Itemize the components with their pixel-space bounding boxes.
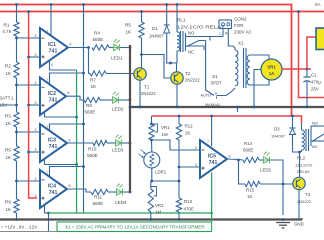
wire IC3 pin4	[45, 159, 77, 165]
svg-text:1K: 1K	[91, 84, 98, 89]
svg-text:1M: 1M	[155, 210, 161, 215]
label LED5	[260, 168, 272, 173]
wire -12V green bus	[76, 70, 78, 213]
wire IC4 pin7	[50, 167, 84, 177]
diode D3	[290, 128, 296, 135]
pin 6 IC1	[70, 43, 72, 47]
wire IC5 pin7	[211, 116, 213, 146]
label LED3	[112, 148, 124, 153]
node ref IC1	[27, 56, 30, 59]
pin L CON2	[220, 32, 222, 36]
wire R13 bottom	[178, 212, 180, 220]
svg-text:IC5: IC5	[208, 154, 216, 160]
node tap IC4	[15, 180, 18, 183]
wire tap to IC4 pin2	[17, 180, 41, 182]
node bar bus junction	[129, 106, 132, 109]
wire VR1 top	[151, 116, 153, 124]
wire second supply rail	[0, 11, 324, 13]
svg-text:R1: R1	[4, 23, 10, 28]
pin 7 IC2	[47, 78, 49, 82]
node IC1 pin7 rail	[50, 3, 53, 6]
transformer X1 secondary	[247, 55, 250, 85]
pin 2 IC1	[35, 34, 37, 38]
wire secondary top to SR1	[250, 55, 269, 60]
svg-text:2K: 2K	[185, 131, 190, 136]
svg-text:T2: T2	[185, 71, 191, 76]
wire to T3 collector	[299, 152, 301, 178]
svg-text:230V AC: 230V AC	[234, 30, 253, 35]
svg-text:CON2: CON2	[234, 17, 247, 22]
svg-text:470E: 470E	[184, 207, 194, 212]
svg-text:NC: NC	[188, 50, 194, 55]
wire bottom ground bar	[0, 218, 302, 220]
op-amp IC2	[40, 78, 66, 116]
wire tap to IC1 pin2	[17, 37, 41, 39]
node IC4 pin7 bus	[82, 165, 85, 168]
relay contact NO RL1	[186, 36, 224, 38]
pin 6 IC2	[68, 91, 70, 95]
wire RL1 coil bottom	[176, 51, 178, 63]
svg-text:2: 2	[195, 146, 197, 150]
wire RL1 coil top	[176, 5, 178, 33]
node LDR tap	[150, 139, 153, 142]
pin 2 IC4	[35, 177, 37, 181]
wire T1 collector to T2 base	[142, 55, 172, 79]
svg-text:2: 2	[35, 177, 37, 181]
node tap BATT	[15, 104, 18, 107]
svg-text:560E: 560E	[93, 201, 104, 206]
label R8	[85, 103, 96, 114]
svg-text:6: 6	[69, 139, 71, 143]
svg-text:2N2222: 2N2222	[185, 78, 200, 83]
svg-text:12V,1C/O RELAY: 12V,1C/O RELAY	[177, 25, 225, 30]
label BATT.1	[0, 96, 14, 108]
svg-text:6: 6	[70, 43, 72, 47]
pin 7 IC4	[47, 171, 49, 175]
node IC4 pin4	[47, 212, 50, 215]
capacitor C1	[303, 77, 310, 82]
note box	[57, 222, 212, 232]
wire down to edge	[48, 213, 50, 232]
svg-text:LED3: LED3	[112, 148, 124, 153]
wire IC1 pin4	[50, 61, 77, 71]
LED LED2	[113, 92, 119, 104]
node VR1 wiper	[150, 123, 153, 126]
svg-text:LED5: LED5	[260, 168, 272, 173]
node T1 emitter bus	[139, 106, 142, 109]
wire LED4 to bar	[123, 191, 130, 193]
wire SR1 left to bus	[254, 70, 261, 108]
relay contact NC RL2	[311, 141, 324, 149]
svg-text:3: 3	[35, 101, 37, 105]
wire +12V rail (top)	[0, 5, 292, 117]
label R3	[5, 114, 12, 126]
svg-text:3: 3	[195, 163, 197, 167]
relay pole bar RL1	[185, 33, 187, 51]
wire D3 bottom	[293, 135, 300, 153]
svg-text:1A: 1A	[269, 71, 275, 76]
svg-text:VR2: VR2	[155, 203, 164, 208]
label C1	[311, 73, 321, 92]
wire secondary bottom to SR1	[250, 80, 269, 86]
label 4 IC1	[51, 63, 53, 67]
label R9	[5, 200, 12, 212]
node LED2 bar	[129, 98, 132, 101]
svg-text:1K: 1K	[247, 194, 252, 199]
wire tap to IC3 pin2	[17, 131, 41, 133]
node LED1 bar	[129, 46, 132, 49]
wire IC3 output	[67, 142, 93, 144]
node IC5 pin7 tap	[210, 115, 213, 118]
svg-text:LED2: LED2	[112, 107, 124, 112]
node IC2 pin4 green	[75, 116, 78, 119]
wire R11 to LED4	[108, 191, 117, 193]
wire +12V bus vertical	[83, 5, 85, 214]
relay coil RL1	[177, 32, 180, 51]
wire S1 to X1 primary	[217, 88, 236, 96]
node base cross	[282, 183, 285, 186]
svg-text:12V: 12V	[0, 103, 8, 108]
svg-text:R15: R15	[246, 188, 255, 193]
pin 3 IC5	[195, 163, 197, 167]
label X1 note	[65, 225, 205, 230]
transistor T3	[293, 177, 305, 189]
relay pole bar RL2	[310, 126, 312, 146]
pin 6 IC5	[229, 155, 231, 159]
wire R9 to ground bar	[16, 213, 18, 220]
wire SR1 output	[282, 68, 311, 70]
wire IC1 pin7 to rail	[50, 5, 52, 37]
node R13 top	[178, 180, 181, 183]
node RL1 rail	[176, 3, 179, 6]
svg-text:3: 3	[35, 148, 37, 152]
wire IC5 pin4 green	[211, 173, 213, 223]
label GND	[294, 222, 304, 227]
wire LED5 down	[270, 160, 283, 215]
svg-text:470µ: 470µ	[311, 80, 321, 85]
node SR1 C1	[306, 68, 309, 71]
node R5 rail2	[140, 10, 143, 13]
op-amp IC3	[40, 124, 67, 162]
pin N CON2	[225, 32, 228, 36]
label NO RL1	[188, 31, 195, 36]
svg-text:1K: 1K	[126, 30, 133, 35]
label R1	[2, 23, 12, 34]
relay coil RL2	[302, 130, 305, 150]
wire C1 bottom	[306, 82, 308, 107]
LED LED5	[264, 152, 270, 164]
node LDR VR2	[150, 180, 153, 183]
label CON2	[234, 17, 253, 35]
svg-text:FOR: FOR	[234, 23, 244, 28]
label R12	[185, 124, 194, 136]
label R7	[90, 78, 97, 90]
node IC3 pin7 bus	[82, 123, 85, 126]
node IC5 pin3 tap	[178, 166, 181, 169]
wire R6 to R9	[16, 161, 18, 199]
label LDR1	[155, 170, 167, 175]
node IC3 pin4 green	[75, 163, 78, 166]
svg-text:4: 4	[51, 63, 53, 67]
resistor R10	[93, 140, 107, 145]
label D3	[271, 127, 286, 139]
svg-text:560E: 560E	[87, 153, 98, 158]
svg-text:R7: R7	[90, 78, 96, 83]
wire IC4 pin4	[45, 205, 49, 214]
node IC1 out	[87, 46, 90, 49]
node tap IC1	[15, 37, 18, 40]
relay arm RL1	[187, 41, 206, 47]
resistor R3	[14, 112, 19, 127]
svg-text:IC3: IC3	[48, 138, 56, 144]
svg-text:560E: 560E	[93, 37, 104, 42]
svg-text:1N4007: 1N4007	[149, 34, 164, 39]
op-amp IC4	[40, 170, 67, 208]
relay core RL1	[181, 31, 184, 52]
svg-text:741: 741	[49, 144, 58, 150]
svg-text:NO: NO	[312, 121, 318, 126]
svg-text:D1: D1	[152, 26, 158, 31]
node green join	[210, 212, 213, 215]
wire IC4 output	[67, 189, 91, 192]
wire tap to IC2 pin2	[17, 84, 41, 86]
wire T2 collector	[176, 63, 178, 72]
wire ref to IC2 pin3	[29, 104, 40, 106]
label S1	[211, 74, 223, 86]
pin 3 IC2	[35, 101, 37, 105]
node C1 bus	[306, 106, 309, 109]
pin 2 IC2	[35, 81, 37, 85]
wire IC2 pin4	[45, 112, 77, 117]
connector CON2	[219, 20, 232, 29]
label R4	[93, 31, 104, 42]
svg-text:VR1: VR1	[161, 125, 170, 130]
wire IC2 pin7	[50, 73, 84, 84]
rectifier SR1	[261, 59, 282, 80]
svg-text:R2: R2	[5, 64, 11, 69]
label RL1	[177, 18, 225, 30]
pin 3 IC1	[35, 53, 37, 57]
wire out jog	[239, 159, 244, 162]
pin 2 IC5	[195, 146, 197, 150]
node T3 collector join	[298, 151, 301, 154]
resistor R13	[176, 198, 181, 212]
label VR1	[161, 125, 170, 137]
op-amp IC5	[200, 140, 227, 178]
wire 0V bus horizontal	[130, 106, 324, 108]
svg-text:NC: NC	[312, 144, 318, 149]
wire RL2 coil top	[301, 123, 303, 130]
wire R8 to LED2	[100, 99, 113, 101]
label R15	[246, 188, 255, 200]
svg-text:R8: R8	[86, 103, 92, 108]
wire R2 to R3	[16, 78, 18, 112]
svg-text:R12: R12	[185, 124, 194, 129]
pin 7 IC1	[47, 30, 49, 34]
svg-text:7: 7	[47, 78, 49, 82]
label R13	[184, 199, 194, 212]
wire R15 to T3 base	[260, 183, 295, 185]
svg-text:741: 741	[209, 160, 218, 166]
svg-text:IC4: IC4	[48, 184, 56, 190]
wire from BATT.1	[0, 104, 17, 106]
wire R10 to LED3	[107, 142, 116, 144]
resistor R12	[176, 124, 181, 140]
svg-text:741: 741	[49, 49, 58, 55]
svg-text:GND: GND	[294, 222, 304, 227]
svg-text:1K: 1K	[6, 71, 13, 76]
wire tap to IC5 pin3	[179, 166, 200, 168]
wire LED common bar	[129, 45, 131, 193]
node LED5 ground	[282, 218, 285, 221]
svg-text:RL1: RL1	[177, 18, 186, 23]
svg-text:LED4: LED4	[115, 200, 127, 205]
svg-text:X1: X1	[238, 41, 244, 46]
label R6	[5, 148, 12, 160]
LED LED1	[114, 39, 120, 51]
svg-text:X1 = 230V AC PRIMARY TO 12V,1A: X1 = 230V AC PRIMARY TO 12V,1A SECONDARY…	[65, 225, 205, 230]
svg-text:6: 6	[68, 91, 70, 95]
wire D1 cathode to rail	[166, 5, 168, 26]
wire +12V internal	[152, 116, 302, 123]
wire ref to IC3 pin3	[29, 151, 40, 153]
wire R5 to T1 collector	[141, 38, 143, 68]
wire R12 bottom column	[178, 140, 180, 198]
wire R7 to T1 base	[106, 73, 135, 75]
label R14	[243, 141, 253, 153]
wire R5 top	[141, 12, 143, 23]
wire CON2 L to NO	[222, 29, 224, 37]
LDR LDR1	[139, 150, 160, 169]
node R12 top	[178, 115, 181, 118]
node ref IC3	[27, 151, 30, 154]
label D1	[149, 26, 164, 39]
node IC5 out	[237, 159, 240, 162]
wire T3 emitter	[298, 190, 300, 220]
wire RL2 coil bottom	[301, 150, 303, 152]
wire bar end up	[301, 218, 303, 220]
svg-text:3: 3	[35, 53, 37, 57]
wire R14 to LED5	[259, 159, 264, 161]
svg-text:3: 3	[35, 194, 37, 198]
label R5	[125, 23, 132, 35]
node SR1 bus	[253, 106, 256, 109]
label X1	[238, 41, 244, 46]
wire T2 emitter	[176, 84, 178, 107]
resistor R14	[243, 157, 259, 162]
node T1 collector	[140, 53, 143, 56]
switch S1	[206, 90, 217, 99]
wire RL1 arm to S1	[205, 41, 207, 91]
wire rail2 branch right	[299, 12, 324, 98]
node D1 rail	[165, 3, 168, 6]
svg-text:LED1: LED1	[111, 56, 123, 61]
svg-text:2: 2	[35, 128, 37, 132]
svg-text:NO: NO	[188, 31, 195, 36]
svg-text:R3: R3	[5, 114, 11, 119]
svg-text:560E: 560E	[85, 109, 96, 114]
relay contact NO RL2	[311, 121, 324, 127]
svg-text:BATT.1: BATT.1	[0, 96, 14, 101]
svg-text:AUTO: AUTO	[201, 94, 212, 98]
svg-text:6: 6	[69, 184, 71, 188]
svg-text:7: 7	[47, 125, 49, 129]
label R10	[87, 147, 98, 159]
pin 7 IC3	[47, 125, 49, 129]
relay contact NC RL1	[186, 46, 205, 50]
svg-text:RELAY: RELAY	[297, 169, 310, 174]
wire IC5 output	[227, 158, 239, 161]
node R13 ground	[178, 218, 181, 221]
svg-text:1K: 1K	[6, 121, 13, 126]
wire LED2 to bar	[119, 99, 130, 101]
node bus stub	[236, 106, 239, 109]
label AUTO	[201, 94, 212, 98]
label T3	[297, 192, 312, 204]
label LED4	[115, 200, 127, 205]
wire reference column	[29, 12, 37, 199]
wire R3 to R6	[16, 127, 18, 146]
wire R12 top	[178, 116, 180, 124]
label T2	[185, 71, 200, 83]
label R11	[93, 195, 104, 206]
svg-text:N: N	[225, 32, 228, 36]
transformer X1 primary	[235, 50, 238, 86]
transformer X1 core	[244, 48, 247, 88]
node IC2 pin7 bus	[82, 72, 85, 75]
svg-text:R9: R9	[5, 200, 11, 205]
svg-text:1K: 1K	[6, 207, 13, 212]
node bus on rail	[82, 3, 85, 6]
wire IC2 output	[66, 96, 84, 100]
pin 6 IC4	[69, 184, 71, 188]
wire bus stub	[237, 107, 239, 112]
svg-text:IC1: IC1	[48, 42, 56, 48]
svg-text:= +12V , 0V , -12V: = +12V , 0V , -12V	[1, 225, 37, 230]
wire VR2 bottom	[150, 212, 152, 220]
transistor T2	[171, 72, 183, 84]
label LED1	[111, 56, 123, 61]
wire R4 to LED1	[109, 47, 114, 49]
svg-text:SR1: SR1	[267, 65, 276, 70]
node rail2 branch	[297, 10, 300, 13]
relay core RL2	[306, 129, 309, 151]
svg-text:LDR1: LDR1	[155, 170, 167, 175]
wire T1 emitter	[139, 80, 141, 107]
wire ref to IC1 pin3	[29, 56, 40, 58]
wire bottom frame	[0, 231, 57, 233]
svg-text:741: 741	[49, 190, 58, 196]
diode D1	[164, 25, 170, 33]
resistor R11	[91, 189, 108, 194]
label supply note	[1, 225, 37, 230]
label VR2	[155, 203, 164, 215]
label R2	[5, 64, 12, 76]
svg-text:7: 7	[207, 140, 209, 144]
node red join	[291, 115, 294, 118]
node VR2 ground	[149, 218, 152, 221]
potentiometer VR2	[148, 181, 156, 212]
node T2 collector join	[169, 62, 172, 65]
svg-text:2N2222: 2N2222	[141, 91, 156, 96]
wire out to R15	[239, 160, 246, 184]
wire to battery box	[307, 37, 316, 69]
svg-text:2: 2	[35, 81, 37, 85]
wire CON2 N to primary	[228, 29, 235, 51]
resistor R15	[245, 181, 260, 186]
svg-text:T1: T1	[144, 85, 150, 90]
battery box	[316, 28, 324, 50]
